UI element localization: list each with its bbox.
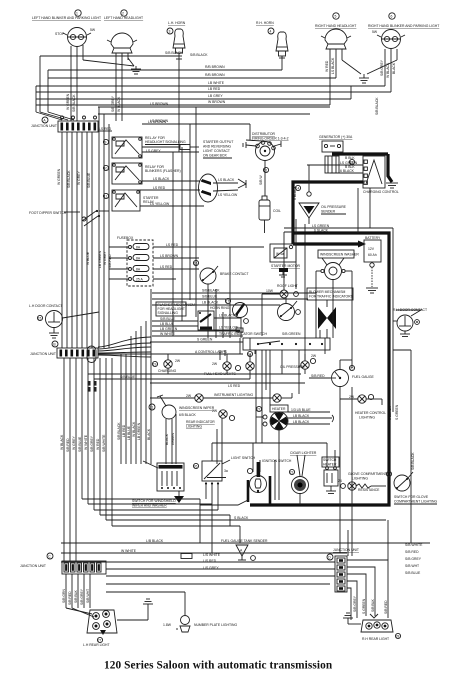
svg-text:LIGHTING: LIGHTING	[359, 416, 375, 420]
svg-text:S/B BLACK: S/B BLACK	[202, 289, 220, 293]
svg-text:2W: 2W	[212, 362, 218, 366]
wire coil to main feed	[264, 220, 266, 233]
svg-text:R.H. HORN: R.H. HORN	[256, 21, 274, 25]
inline connectors below junction2	[88, 381, 97, 392]
svg-text:S/B RED: S/B RED	[68, 591, 72, 605]
wire RH blinker leads	[385, 49, 397, 92]
svg-text:GLOVE COMPARTMENT: GLOVE COMPARTMENT	[348, 472, 387, 476]
svg-text:S GREEN: S GREEN	[362, 598, 366, 614]
svg-text:S GREEN: S GREEN	[197, 338, 213, 342]
ground RH rear	[343, 613, 361, 624]
svg-text:FUEL GAUGE: FUEL GAUGE	[352, 375, 374, 379]
svg-text:LB BLUE: LB BLUE	[160, 322, 175, 326]
svg-text:S/B W: S/B W	[259, 175, 263, 185]
label LS BROWN fuse	[153, 254, 199, 258]
wiper switch ground arrow	[174, 491, 184, 503]
traffic indicator switch box	[243, 338, 330, 350]
label rear wire colours left	[62, 588, 90, 605]
svg-text:6: 6	[391, 15, 393, 19]
resistance	[356, 484, 380, 492]
wire LS GREEN regulator	[307, 161, 363, 165]
wire fuse feeds left	[109, 247, 129, 279]
bus LB WHITE y86	[36, 81, 385, 86]
label switch for windshield wiper and washer	[132, 499, 176, 508]
svg-text:LS BROWN: LS BROWN	[150, 102, 169, 106]
starter motor ground	[279, 268, 288, 277]
label rear wire colours right	[353, 595, 388, 614]
svg-text:ON GEAR BOX: ON GEAR BOX	[203, 154, 227, 158]
wiper switch	[157, 463, 184, 491]
node 31 marker	[103, 139, 108, 144]
svg-text:STARTER OUTPUT: STARTER OUTPUT	[203, 140, 233, 144]
svg-text:LS RED: LS RED	[99, 127, 112, 131]
junction unit 3	[62, 561, 106, 574]
glove compartment switch	[394, 472, 413, 491]
wire spark plug leads	[243, 140, 281, 148]
svg-text:JUNCTION UNIT: JUNCTION UNIT	[20, 564, 46, 568]
windscreen washer motor	[321, 258, 345, 280]
wire ignition lead left	[200, 500, 248, 505]
svg-text:LIGHTING: LIGHTING	[352, 477, 368, 481]
svg-text:A CONTROL LAMPS: A CONTROL LAMPS	[195, 350, 228, 354]
svg-text:RIGHT HAND BLINKER AND PARKING: RIGHT HAND BLINKER AND PARKING LIGHT	[368, 24, 439, 28]
bus S/B BLUE y295	[152, 295, 308, 300]
svg-text:WINDSCREEN WIPER: WINDSCREEN WIPER	[179, 406, 215, 410]
wire verticals x207-230 mid	[208, 247, 230, 338]
svg-text:LS BROWN: LS BROWN	[160, 254, 179, 258]
label heater control lighting	[355, 411, 386, 420]
wire lamp feeds row verticals	[168, 354, 305, 379]
svg-text:8A: 8A	[136, 268, 141, 272]
bus LS BROWN y114	[98, 114, 310, 123]
svg-text:S/B BLACK: S/B BLACK	[190, 53, 208, 57]
label B BLACK generator	[345, 156, 355, 169]
wire junction4 to rear light right	[347, 560, 388, 620]
wire glove lamp to switch	[371, 485, 386, 487]
blower mechanism label box	[307, 288, 354, 300]
svg-text:BRAKE CONTACT: BRAKE CONTACT	[220, 272, 249, 276]
wire windscreen washer feed across	[239, 338, 241, 354]
oil pressure sender	[299, 192, 319, 218]
label wire colours left lamps	[66, 93, 121, 112]
node 25 marker	[386, 471, 391, 476]
svg-text:W BLUE: W BLUE	[86, 251, 90, 265]
svg-text:4: 4	[270, 30, 272, 34]
lamp: right hand blinker and parking light	[377, 30, 405, 49]
svg-text:SWITCH FOR GLOVE: SWITCH FOR GLOVE	[394, 495, 429, 499]
svg-text:LB RED: LB RED	[122, 424, 126, 437]
junction unit 2	[57, 346, 98, 363]
wire blower leads	[326, 300, 328, 338]
svg-text:28: 28	[396, 635, 400, 639]
battery ground strap	[366, 263, 378, 293]
svg-text:A: A	[240, 549, 243, 553]
svg-text:LS BROWN: LS BROWN	[148, 120, 167, 124]
svg-text:S/B BLACK: S/B BLACK	[72, 94, 76, 112]
svg-text:LS BLACK: LS BLACK	[218, 178, 235, 182]
svg-text:5W: 5W	[372, 30, 378, 34]
svg-text:SIGNALLING: SIGNALLING	[158, 311, 179, 315]
svg-text:LB GREEN: LB GREEN	[137, 422, 141, 440]
node 13 marker	[263, 167, 268, 172]
svg-text:S/B GREEN: S/B GREEN	[282, 332, 301, 336]
node 15 marker	[37, 315, 42, 320]
node 27 marker	[97, 637, 102, 642]
svg-text:L/S WHITE: L/S WHITE	[203, 553, 221, 557]
svg-text:LIGHT SWITCH: LIGHT SWITCH	[231, 456, 256, 460]
wire RH headlight leads	[330, 49, 342, 105]
generator	[322, 141, 343, 152]
svg-text:6 BLACK: 6 BLACK	[388, 405, 392, 420]
node 3 marker	[167, 28, 173, 34]
ground symbol right lamps	[359, 78, 369, 83]
svg-text:S/B RED: S/B RED	[311, 374, 325, 378]
svg-text:L.H. HORN: L.H. HORN	[168, 21, 186, 25]
node 6 marker	[389, 13, 395, 19]
wire thick bundle into wiper switch	[143, 461, 158, 468]
svg-text:S/B BLACK: S/B BLACK	[117, 422, 121, 440]
flasher mechanism label box	[156, 302, 195, 316]
wire right thin vertical x393 lower	[392, 350, 394, 412]
svg-text:TRAFFIC INDICATOR SWITCH: TRAFFIC INDICATOR SWITCH	[219, 332, 267, 336]
ground symbol left lamps	[131, 69, 141, 74]
wire lamp grounds to common ground	[83, 58, 136, 69]
label relay for headlight signalling	[145, 136, 186, 145]
node 23 marker	[289, 469, 294, 474]
bus LB RED y92	[36, 87, 391, 92]
wire distributor to coil	[259, 161, 265, 197]
ignition switch	[247, 462, 266, 493]
svg-text:JUNCTION UNIT: JUNCTION UNIT	[30, 352, 56, 356]
wire door contact lead	[63, 312, 100, 318]
svg-text:S/B WHT: S/B WHT	[405, 564, 419, 568]
svg-text:S/B BLUE: S/B BLUE	[87, 172, 91, 188]
label relay for blinkers	[145, 165, 181, 173]
svg-text:8A: 8A	[136, 246, 141, 250]
svg-text:LS YELLOW: LS YELLOW	[218, 193, 238, 197]
svg-text:LS YELLOW: LS YELLOW	[150, 202, 170, 206]
svg-text:S/B BLK: S/B BLK	[371, 598, 375, 612]
bus LS BROWN y107	[98, 102, 330, 107]
label heater wires	[288, 408, 334, 424]
svg-text:COMPARTMENT LIGHTING: COMPARTMENT LIGHTING	[394, 500, 438, 504]
label bundle colours lower	[60, 434, 106, 452]
wire mid right verticals	[320, 188, 370, 354]
svg-text:L/B BLACK: L/B BLACK	[146, 539, 164, 543]
lamp: right hand headlight	[321, 29, 351, 49]
wire rear indicator leads	[217, 418, 222, 464]
svg-text:REAR INDICATOR: REAR INDICATOR	[186, 420, 215, 424]
wire roof light leads	[262, 294, 286, 336]
charging control lamp	[164, 359, 181, 368]
svg-text:HEADLIGHT SIGNALLING: HEADLIGHT SIGNALLING	[145, 140, 186, 144]
instrument lighting lamp left	[150, 394, 273, 402]
bus y569 bottom	[106, 568, 335, 570]
svg-text:10: 10	[104, 167, 108, 171]
svg-text:25: 25	[387, 473, 391, 477]
svg-text:W BLACK: W BLACK	[117, 96, 121, 112]
svg-text:HORN RING: HORN RING	[210, 306, 230, 310]
svg-text:21: 21	[150, 406, 154, 410]
starter motor	[270, 244, 296, 262]
node 12 marker	[349, 159, 354, 164]
wire fuse3 to brake contact	[153, 265, 199, 269]
wire oil lamp to fuel gauge	[309, 377, 331, 379]
glove compartment lamp	[338, 479, 356, 490]
svg-text:A: A	[43, 119, 46, 123]
svg-text:2W: 2W	[175, 359, 181, 363]
svg-text:DISTRIBUTOR: DISTRIBUTOR	[252, 132, 275, 136]
svg-text:LIGHTING: LIGHTING	[186, 425, 202, 429]
blower motor bowtie	[318, 307, 336, 329]
bus LS BROWN relay row	[142, 120, 250, 124]
wire stack lines flasher	[150, 321, 243, 342]
svg-text:LIGHT CONTACT: LIGHT CONTACT	[203, 149, 230, 153]
wire RH lamp grounds	[342, 60, 397, 78]
svg-text:LB BLACK: LB BLACK	[293, 414, 310, 418]
bus LS YELLOW gearbox	[140, 202, 204, 206]
svg-text:S/B BLUE: S/B BLUE	[160, 317, 176, 321]
fusebox	[127, 240, 153, 286]
svg-text:S/B BLK: S/B BLK	[74, 589, 78, 603]
svg-text:SWITCH FOR WINDSHIELD: SWITCH FOR WINDSHIELD	[132, 499, 176, 503]
svg-text:S/B BLUE: S/B BLUE	[120, 375, 136, 379]
label wire stack flasher	[160, 317, 178, 336]
node 19 marker	[152, 361, 157, 366]
svg-text:25 A: 25 A	[136, 278, 144, 282]
wire LS GREEN to door contact column	[284, 228, 393, 290]
wire heater leads	[256, 412, 290, 443]
svg-text:HEATER CONTROL: HEATER CONTROL	[355, 411, 386, 415]
svg-text:D: D	[328, 556, 331, 560]
svg-text:C: C	[48, 555, 51, 559]
wire thick ignition right flank	[269, 476, 272, 505]
svg-text:S/B GREY: S/B GREY	[380, 59, 384, 76]
svg-text:B BLK: B BLK	[345, 156, 355, 160]
svg-text:LS BLACK: LS BLACK	[331, 57, 335, 74]
svg-text:FOOT DIPPER SWITCH: FOOT DIPPER SWITCH	[29, 211, 67, 215]
oil pressure lamp	[301, 354, 317, 369]
node 10 marker	[103, 165, 108, 170]
svg-text:S/B GREY: S/B GREY	[80, 588, 84, 605]
svg-text:LS RED: LS RED	[166, 243, 179, 247]
svg-text:15: 15	[38, 317, 42, 321]
svg-text:W BLACK: W BLACK	[132, 421, 136, 437]
svg-text:9: 9	[105, 141, 107, 145]
svg-text:S/B GRN: S/B GRN	[62, 589, 66, 603]
wire nested loop corners	[82, 358, 386, 553]
svg-text:LS GREEN: LS GREEN	[340, 161, 358, 165]
svg-text:60 Ah: 60 Ah	[368, 253, 377, 257]
svg-text:S/B WHITE: S/B WHITE	[102, 434, 106, 452]
svg-text:S/B BLACK: S/B BLACK	[375, 97, 379, 115]
svg-text:LB RED: LB RED	[208, 87, 221, 91]
L.H rear light	[87, 610, 117, 635]
svg-text:23: 23	[290, 471, 294, 475]
wire heater switch leads	[212, 443, 335, 466]
wire traffic switch drops	[220, 350, 270, 443]
junction unit 4	[335, 556, 347, 592]
svg-text:10W: 10W	[266, 289, 274, 293]
svg-text:8A: 8A	[136, 257, 141, 261]
svg-text:W RED: W RED	[96, 438, 100, 450]
label distributor firing order	[252, 132, 289, 141]
svg-text:LB WHITE: LB WHITE	[208, 81, 225, 85]
svg-text:S/B GREY: S/B GREY	[353, 595, 357, 612]
bus full beam y354	[98, 350, 243, 354]
lamp: left hand headlight	[107, 33, 137, 53]
horn ring switch	[233, 303, 249, 339]
wire secondary verticals x99-109	[99, 107, 109, 348]
interior light switch	[278, 301, 301, 321]
wire thick ignition left flank	[247, 480, 250, 502]
horn L.H. body	[173, 29, 185, 62]
wire thick generator to regulator	[332, 152, 388, 155]
bus y553 bottom	[61, 552, 347, 554]
svg-text:BLACK: BLACK	[392, 62, 396, 74]
node D marker junction 4	[327, 554, 333, 560]
bus y592 bottom	[106, 591, 185, 593]
svg-text:FOR TRAFFIC INDICATORS: FOR TRAFFIC INDICATORS	[309, 295, 354, 299]
ground LH rear	[117, 599, 153, 620]
bus LB GREY y99	[36, 86, 351, 99]
flasher switch box	[198, 311, 214, 330]
wire verticals center x255-299	[255, 219, 299, 394]
svg-text:STOP: STOP	[55, 32, 65, 36]
svg-text:INSTRUMENT LIGHTING: INSTRUMENT LIGHTING	[214, 393, 253, 397]
wire ignition feeds up	[253, 443, 260, 472]
label rear indicator lighting	[186, 420, 215, 429]
svg-text:12V: 12V	[368, 247, 375, 251]
svg-text:22: 22	[257, 408, 261, 412]
svg-text:W RED: W RED	[325, 60, 329, 72]
svg-text:26: 26	[194, 465, 198, 469]
node 4 marker	[268, 28, 274, 34]
R.H door contact switch	[396, 310, 421, 337]
label 6 BLACK right rotated	[388, 404, 415, 470]
svg-text:W BROWN: W BROWN	[208, 100, 226, 104]
ground symbol regulator	[386, 183, 398, 188]
svg-text:HEATER: HEATER	[272, 407, 286, 411]
horn R.H. body	[276, 32, 288, 62]
windscreen wiper motor	[149, 395, 176, 419]
svg-text:LB BLACK: LB BLACK	[293, 420, 310, 424]
fuel gauge tank sender	[236, 545, 255, 560]
svg-text:6 BLACK: 6 BLACK	[340, 169, 355, 173]
label mid bundle colours	[117, 421, 175, 445]
node 18 marker	[247, 351, 252, 356]
node 1 marker	[75, 10, 81, 16]
svg-text:2: 2	[122, 12, 124, 16]
gearbox contact oval	[199, 174, 218, 202]
wire wiper to switch	[166, 414, 176, 464]
svg-text:20: 20	[350, 367, 354, 371]
wire distributor feed	[249, 124, 251, 140]
node B marker junction unit 2	[52, 341, 58, 347]
wire fuel gauge down	[339, 387, 341, 461]
wire RH door contact lead	[393, 228, 411, 505]
wire thick regulator to starter cable	[293, 182, 363, 244]
svg-text:W WHITE: W WHITE	[121, 549, 137, 553]
instrument lighting lamp right	[273, 393, 292, 402]
roof light	[266, 284, 298, 298]
svg-text:S/B RED: S/B RED	[405, 550, 419, 554]
svg-text:S/B WHITE: S/B WHITE	[405, 543, 423, 547]
bus LB BLUE y300	[152, 301, 280, 306]
svg-text:S/B BLACK: S/B BLACK	[165, 51, 183, 55]
svg-text:BLINKERS (FLASHER): BLINKERS (FLASHER)	[145, 169, 181, 173]
svg-text:61: 61	[264, 169, 268, 173]
label oil pressure sender	[321, 205, 347, 214]
node 14 marker	[295, 185, 300, 190]
wire brake contact down	[207, 284, 209, 311]
node 16 marker	[193, 260, 198, 265]
svg-text:5W: 5W	[90, 28, 96, 32]
lamp: left hand blinker and parking light	[63, 28, 91, 47]
cigar lighter	[292, 455, 309, 505]
svg-text:JUNCTION UNIT: JUNCTION UNIT	[31, 124, 57, 128]
svg-text:W GREEN: W GREEN	[66, 93, 70, 110]
svg-text:R/B BROWN: R/B BROWN	[205, 65, 225, 69]
wire thick regulator down to ground	[388, 154, 392, 182]
wire fuse4 right	[153, 278, 176, 280]
junction unit 1	[58, 116, 98, 132]
svg-text:COIL: COIL	[273, 209, 281, 213]
wire washer lead down to traffic box	[316, 295, 333, 338]
node 5 marker	[333, 13, 339, 19]
wire junction3 down to LH rear light	[66, 574, 94, 617]
svg-text:SENDER: SENDER	[321, 210, 336, 214]
distributor	[256, 141, 276, 161]
svg-text:S/B BLACK: S/B BLACK	[67, 170, 71, 188]
wire left bundle junction2 down	[64, 358, 106, 561]
svg-text:BATTERY: BATTERY	[365, 236, 381, 240]
label starter output and reversing light contact on gear box	[203, 140, 233, 158]
svg-text:S/B BLUE: S/B BLUE	[78, 436, 82, 452]
svg-text:LEFT HAND HEADLIGHT: LEFT HAND HEADLIGHT	[104, 16, 143, 20]
light switch	[202, 461, 228, 485]
svg-text:W WHITE: W WHITE	[84, 434, 88, 450]
label bundle colours mid	[57, 168, 112, 268]
svg-text:S/B RED: S/B RED	[66, 438, 70, 452]
node 22 marker	[256, 406, 261, 411]
bus mid y374	[88, 358, 301, 374]
svg-text:11: 11	[104, 195, 108, 199]
label L/S WHITE	[203, 553, 221, 570]
wire light switch leads	[206, 451, 218, 510]
fuel gauge	[332, 370, 349, 387]
wire fuel sender link	[339, 460, 341, 553]
svg-text:FIRING ORDER 1-3-4-2: FIRING ORDER 1-3-4-2	[252, 137, 289, 141]
svg-text:CHARGING: CHARGING	[158, 369, 177, 373]
switch heater	[324, 467, 338, 494]
brake contact	[200, 266, 218, 284]
relay for headlight signalling	[112, 137, 142, 158]
svg-text:S GREEN: S GREEN	[395, 404, 399, 420]
wire thick starter to battery	[293, 241, 366, 248]
wire junction to relay1	[98, 130, 112, 132]
label starter relay	[143, 196, 159, 204]
bus y576 bottom	[106, 575, 335, 577]
foot dipper switch	[64, 210, 109, 226]
wire LS YELLOW flasher	[214, 326, 243, 333]
svg-text:S/B GREY: S/B GREY	[90, 435, 94, 452]
wire fuel gauge top link	[340, 360, 352, 370]
svg-text:2W: 2W	[212, 409, 218, 413]
wire oil lamp vertical lower	[299, 366, 305, 374]
svg-text:RIGHT HAND HEADLIGHT: RIGHT HAND HEADLIGHT	[315, 24, 356, 28]
relay for blinkers	[112, 163, 142, 184]
